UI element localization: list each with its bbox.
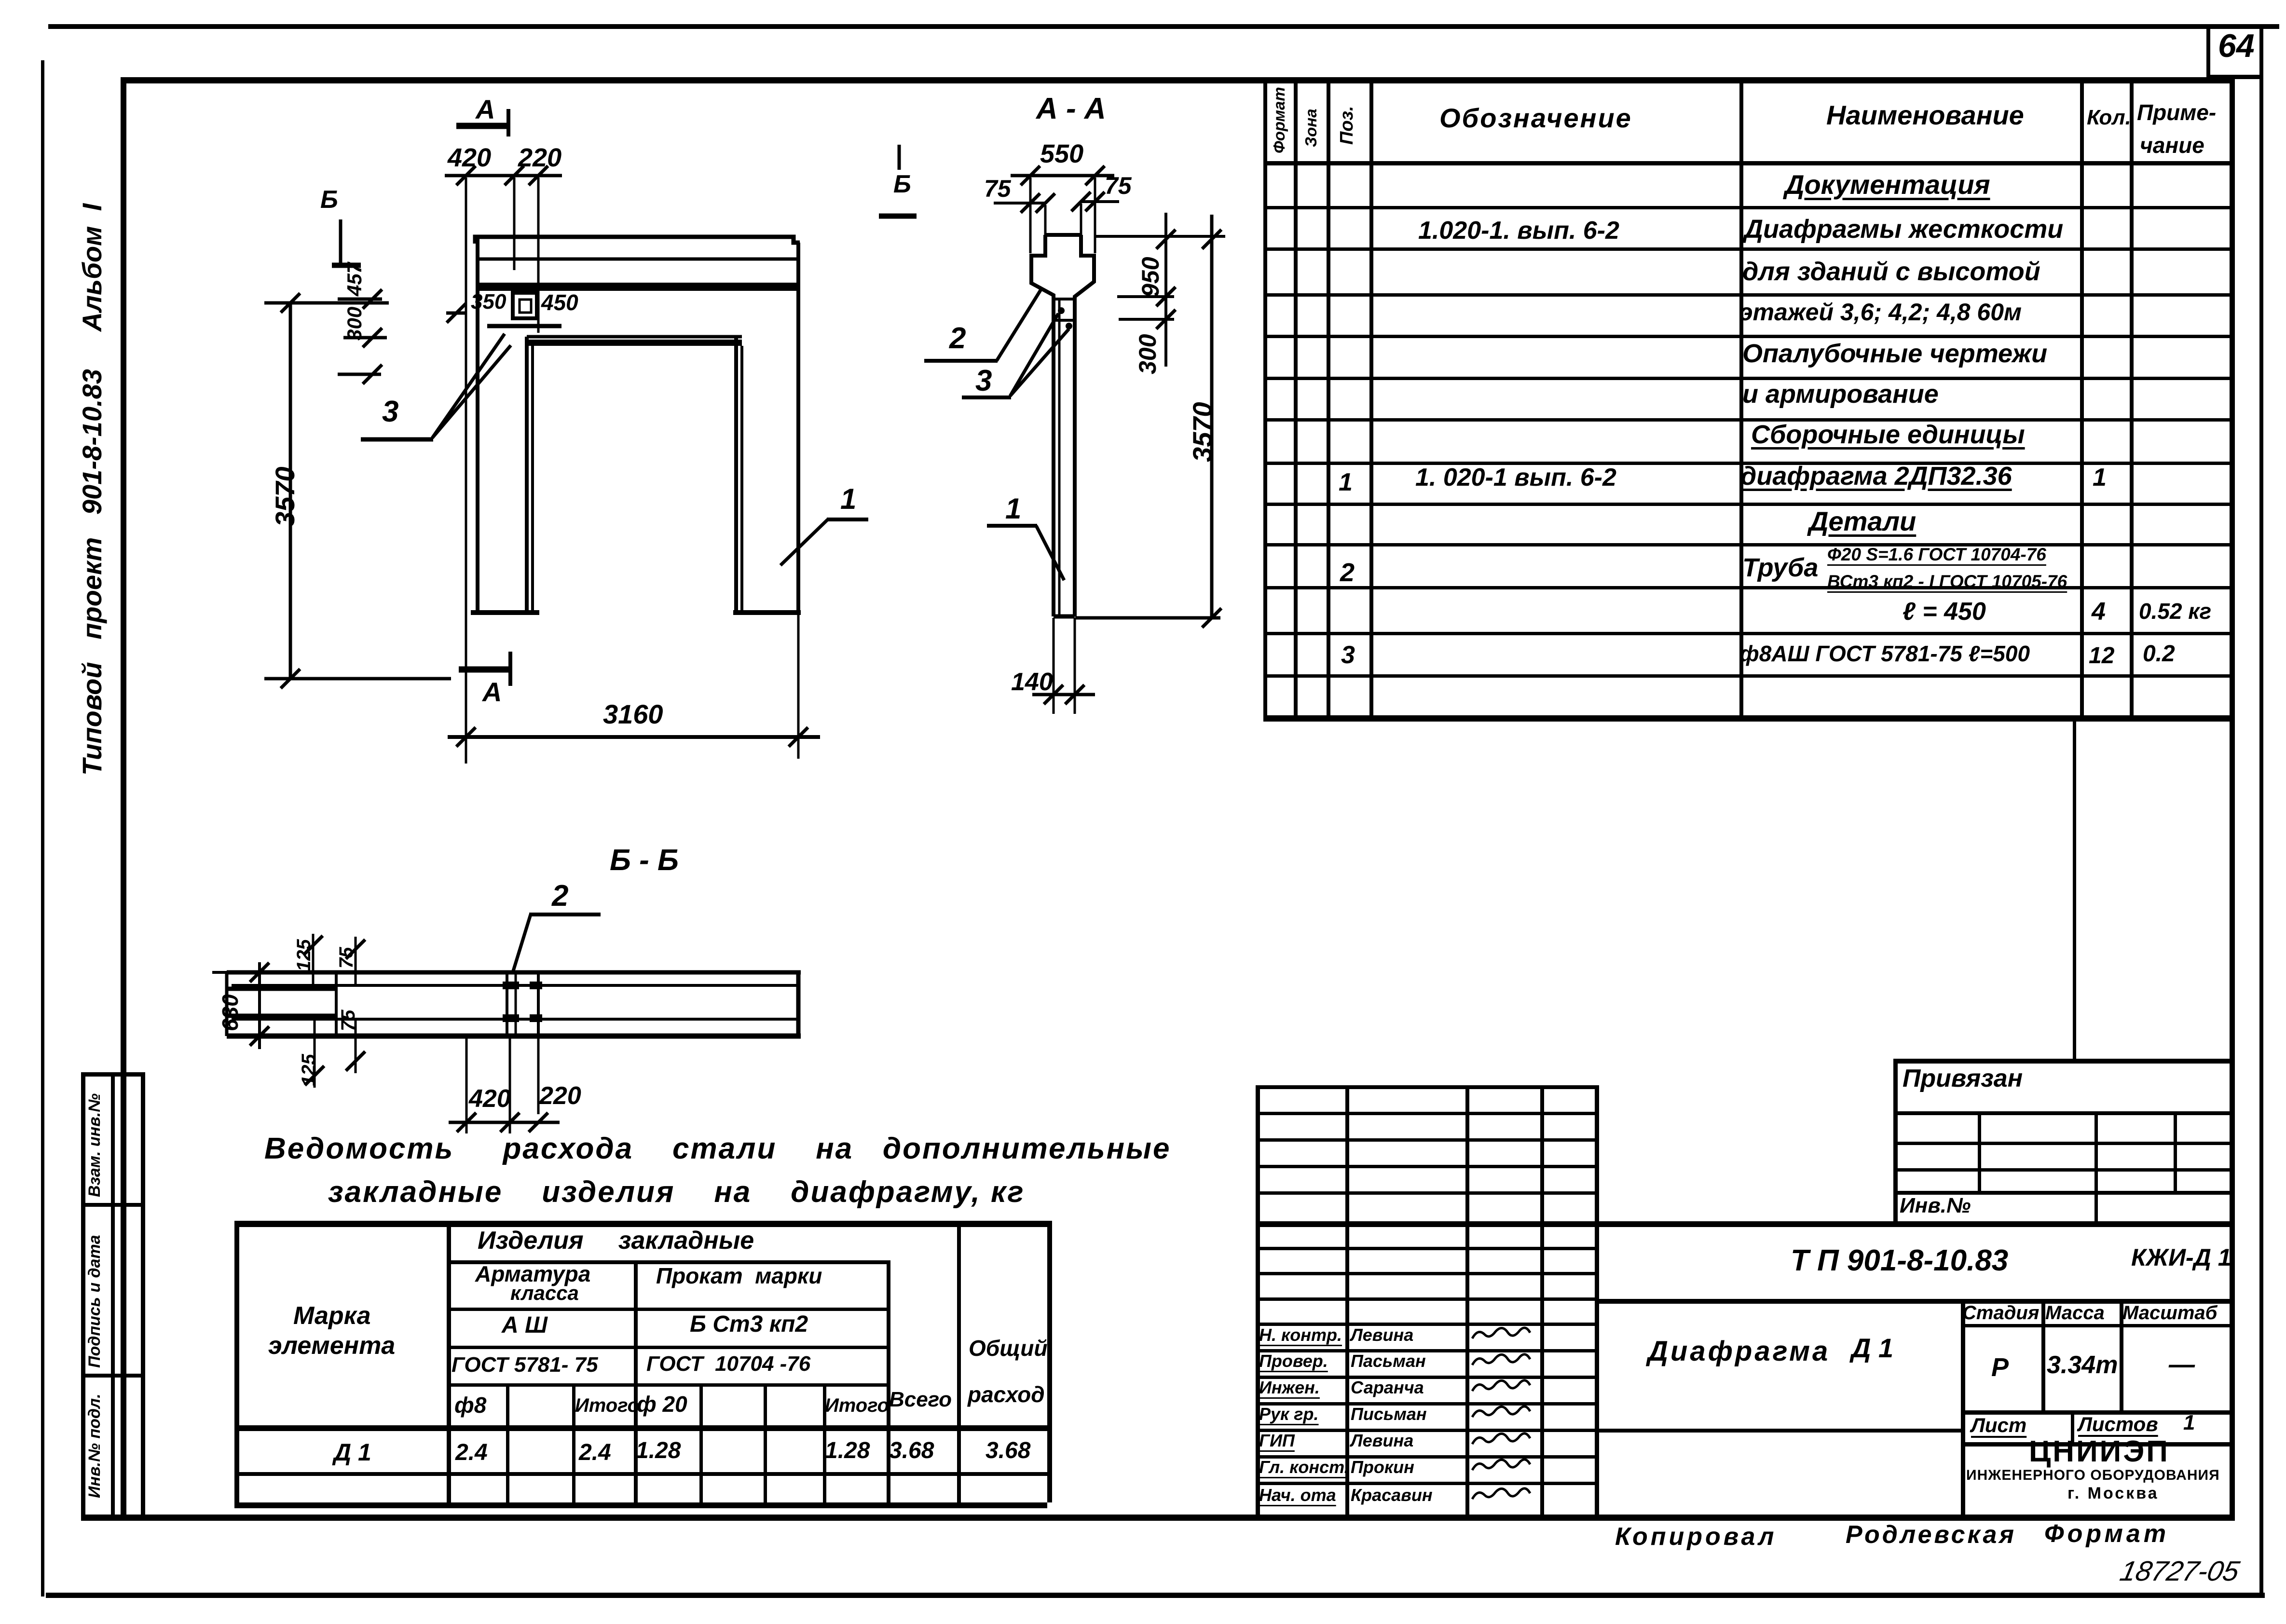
stamp box right edge	[141, 1072, 145, 1516]
front view tick 457 top	[338, 298, 382, 301]
spec table vertical 6	[2130, 77, 2134, 721]
spec row line y957	[1263, 462, 2230, 465]
vedomost top edge	[234, 1221, 1047, 1227]
page number box left edge	[2206, 24, 2210, 78]
org line3 Moscow	[2067, 1485, 2159, 1502]
org line2	[1966, 1467, 2220, 1483]
spec row6 name	[1742, 380, 1939, 409]
spec row8 name	[1740, 462, 2012, 491]
vedomost title line1	[264, 1133, 1171, 1165]
signature upper row line 2	[1256, 1165, 1595, 1168]
spec header naimenovanie	[1826, 100, 2024, 130]
spec row line y781	[1263, 377, 2230, 380]
front view opening top thin line	[527, 335, 742, 339]
section B-B vertical at channel end	[335, 972, 338, 1036]
doc code KZHI-D1	[2131, 1244, 2231, 1271]
signature row line 2	[1256, 1297, 1595, 1301]
privyazan grid vertical 2	[2094, 1111, 2098, 1221]
label 3 front view	[382, 396, 398, 428]
section B-B extension 420/220 mid	[509, 1036, 511, 1133]
spec row line y1310	[1263, 632, 2230, 635]
signature table vertical 2	[1345, 1085, 1349, 1518]
vedomost gost 10704-76	[646, 1352, 810, 1376]
front view left outer edge	[476, 237, 479, 613]
spec row line y608	[1263, 293, 2230, 297]
vedomost line under data row	[234, 1472, 1047, 1476]
spec table vertical 1	[1294, 77, 1298, 721]
privyazan inv no label	[1900, 1194, 1971, 1217]
signature row line 8	[1256, 1455, 1595, 1459]
front view opening top thick band	[527, 340, 742, 346]
left margin vertical label	[77, 204, 107, 776]
signature name Левина	[1351, 1325, 1413, 1345]
section A-A dim line 950/300	[1164, 213, 1167, 367]
section mark B front view	[339, 219, 342, 264]
vedomost data 3.68 obshchiy	[986, 1438, 1030, 1464]
section B-B inner line bottom	[232, 1018, 798, 1021]
label 1 leader (front view)	[827, 518, 868, 521]
spec row3 name	[1742, 258, 2040, 286]
spec row2 oboznachenie	[1418, 217, 1619, 245]
section mark letter B AA	[893, 171, 911, 198]
vedomost right edge	[1047, 1221, 1052, 1502]
privyazan grid vertical 1	[1978, 1111, 1981, 1191]
front view ledge bottom line	[487, 324, 561, 328]
vedomost vertical marka|izdeliya	[447, 1221, 451, 1502]
signature row line 1	[1256, 1272, 1595, 1275]
vedomost value A-III	[502, 1313, 548, 1338]
dim text 3160	[603, 699, 663, 729]
stamp label podpis i data	[86, 1235, 104, 1368]
dim text 450 cap	[541, 290, 578, 315]
spec table vertical 5	[2080, 77, 2084, 721]
label 2 AA	[949, 322, 966, 355]
title diafragma	[1648, 1336, 1830, 1367]
section B-B plate anchor blobs	[503, 982, 519, 989]
section B-B bar outline	[227, 970, 801, 975]
title block top edge	[1256, 1221, 2230, 1227]
spec row10 fraction bottom	[1827, 572, 2067, 592]
signature row ГИП	[1259, 1431, 1295, 1450]
section mark B (A-A view)	[898, 145, 901, 170]
dim text 220 front	[518, 144, 561, 172]
privyazan grid line 1	[1893, 1111, 2230, 1115]
vertical list|listov	[2071, 1410, 2074, 1442]
section A-A tie line 1	[1054, 298, 1075, 300]
vertical line from spec table to privyazan table	[2073, 721, 2076, 1060]
signature table top edge	[1256, 1085, 1595, 1089]
value listov 1	[2183, 1411, 2195, 1434]
dim text 125 top BB rotated	[293, 939, 315, 971]
signature row Провер.	[1259, 1351, 1328, 1371]
spec row11 prim	[2139, 599, 2211, 624]
dim text 420 front	[448, 144, 491, 172]
vedomost vertical itogo1 left	[572, 1383, 575, 1502]
dim text 550 AA	[1040, 140, 1083, 168]
stamp box left edge	[81, 1072, 85, 1516]
section mark A top	[456, 123, 510, 129]
spec row line y513	[1263, 247, 2230, 251]
dim text 75 left AA	[984, 176, 1011, 202]
spec header kol	[2087, 106, 2131, 129]
vedomost line under izdeliya header	[447, 1260, 887, 1264]
dim text 350 cap	[471, 290, 506, 314]
dim text 140 AA	[1011, 669, 1053, 696]
dim text 3570 front rotated	[270, 466, 300, 527]
front view tick 457/300 divider	[343, 336, 387, 340]
inner frame right	[2230, 77, 2235, 1519]
signature row line 7	[1256, 1429, 1595, 1432]
page number box bottom edge	[2206, 75, 2263, 79]
section B-B extension 125 bottom	[314, 1019, 316, 1088]
vedomost vertical obshchiy left	[957, 1221, 961, 1502]
dim text 950 AA rotated	[1137, 257, 1164, 297]
dim text 220 BB	[539, 1082, 581, 1110]
front view right foot bottom line	[733, 610, 801, 615]
section A-A dim line 75 left	[994, 202, 1044, 205]
spec row line y1126	[1263, 543, 2230, 546]
stamp box top edge	[81, 1072, 144, 1077]
spec row8 kol	[2093, 464, 2107, 491]
privyazan label	[1903, 1065, 2023, 1092]
spec row4 name	[1739, 299, 2022, 326]
section A-A dim line 550	[1011, 174, 1114, 177]
spec row line y1042	[1263, 503, 2230, 506]
vedomost value BSt3kp2	[690, 1312, 808, 1337]
front view extension line 3570 top	[264, 301, 389, 305]
section A-A stem bottom	[1054, 614, 1075, 619]
spec header col zona	[1302, 109, 1320, 147]
front view opening right edge	[734, 337, 738, 613]
doc code TP 901-8-10.83	[1791, 1244, 2008, 1277]
signature name Красавин	[1351, 1486, 1433, 1505]
signature row line 6	[1256, 1402, 1595, 1406]
front view opening right inner line	[740, 346, 743, 613]
spec row line y1398	[1263, 674, 2230, 678]
spec table vertical 4	[1739, 77, 1743, 721]
privyazan grid line 4	[1893, 1191, 2230, 1195]
section B-B extension 420 left	[465, 1036, 468, 1133]
title block line under doc code	[1595, 1299, 2230, 1304]
spec row11 l450	[1903, 598, 1986, 626]
stamp label inv podl	[86, 1393, 104, 1498]
spec row10 truba	[1742, 554, 1818, 582]
front view tick line 350 level	[446, 312, 466, 315]
dim text 125 bottom BB rotated	[298, 1054, 319, 1086]
section mark letter B front	[320, 186, 338, 214]
section mark letter A bottom	[482, 677, 502, 707]
front view left extension line	[465, 177, 467, 764]
vedomost header elementa	[268, 1332, 395, 1360]
section A-A extension right	[1094, 177, 1096, 253]
label 2 leader (B-B)	[529, 913, 601, 916]
page outer bottom border	[46, 1593, 2265, 1598]
signature row Инжен.	[1259, 1378, 1320, 1397]
privyazan table top edge	[1893, 1059, 2231, 1064]
vedomost line under armatura/prokat	[447, 1308, 887, 1311]
signature row Нач. ота	[1259, 1486, 1336, 1505]
spec row12 prim	[2143, 641, 2175, 667]
vedomost gost 5781-75	[452, 1353, 598, 1377]
footer rodlevskaya	[1846, 1521, 2016, 1549]
label 2 leader (A-A)	[924, 359, 998, 363]
signature table vertical 4	[1540, 1085, 1544, 1518]
spec row documentation	[1785, 170, 1990, 200]
vedomost header izdeliya zakladnye	[478, 1227, 754, 1255]
section B-B inner line top	[232, 984, 798, 987]
vedomost data 1.28 f20	[636, 1438, 681, 1464]
header massa	[2045, 1302, 2105, 1324]
signature table right edge	[1595, 1085, 1599, 1518]
section B-B dim line 420/220	[449, 1121, 560, 1124]
vedomost vertical vsego left	[887, 1260, 890, 1502]
vedomost header marka	[293, 1302, 371, 1330]
section A-A extension 140 right	[1074, 618, 1076, 714]
spec row8 oboznachenie	[1415, 464, 1616, 491]
signature name Саранча	[1351, 1378, 1424, 1397]
front view dim line 3570	[289, 303, 292, 679]
section A-A anchor dots (item 3)	[1058, 307, 1065, 314]
title D1	[1851, 1333, 1893, 1363]
dim text 457 rotated	[343, 262, 366, 296]
label 3 AA	[975, 365, 992, 397]
vedomost vertical f8 right	[506, 1383, 509, 1502]
section B-B extension 220 right	[537, 1036, 540, 1114]
footer kopiroval	[1615, 1523, 1777, 1551]
signature upper row line 3	[1256, 1191, 1595, 1195]
stamp divider 2	[81, 1374, 144, 1378]
spec table bottom line	[1263, 715, 2230, 722]
vertical massa|masshtab	[2120, 1299, 2123, 1410]
footer format	[2044, 1520, 2169, 1548]
header masshtab	[2122, 1302, 2217, 1324]
spec row10 poz	[1340, 559, 1355, 587]
spec table vertical 3	[1369, 77, 1373, 721]
spec header bottom line	[1263, 161, 2230, 165]
front view right outer edge	[796, 243, 800, 613]
header stadia	[1962, 1302, 2039, 1324]
spec header col poz	[1337, 106, 1357, 145]
spec row7 name	[1751, 421, 2025, 449]
stamp divider 1	[81, 1203, 144, 1207]
dim text 75 top BB rotated	[336, 947, 357, 969]
signature upper row line 1	[1256, 1138, 1595, 1142]
label 1 front view	[840, 483, 856, 515]
signature upper row line 0	[1256, 1112, 1595, 1115]
vedomost left edge	[234, 1221, 239, 1502]
section B-B extension 125 top	[312, 934, 315, 985]
spec row2 name	[1744, 215, 2063, 244]
signature row Рук гр.	[1259, 1405, 1319, 1424]
page outer right border	[2259, 24, 2263, 1598]
privyazan table left edge	[1893, 1059, 1898, 1225]
section B-B dim line 630	[258, 962, 261, 1049]
vedomost data D1	[334, 1439, 371, 1466]
spec row line y867	[1263, 418, 2230, 422]
vedomost bottom edge	[234, 1502, 1047, 1508]
vedomost vertical blank	[764, 1383, 767, 1502]
title line under diafragma cell	[1595, 1429, 1961, 1433]
spec row10 fraction top	[1827, 545, 2046, 565]
page number 64	[2218, 28, 2255, 64]
front view extension line mid	[513, 177, 516, 270]
label 1 AA	[1005, 493, 1021, 525]
title block vertical diafragma/stadia	[1961, 1299, 1965, 1518]
dim text 300 AA rotated	[1135, 334, 1161, 374]
section mark letter A top	[476, 95, 495, 124]
front view dim line 420/220	[445, 174, 562, 177]
spec header chanie	[2140, 133, 2204, 158]
front view opening left edge	[525, 337, 529, 613]
dim text 3570 AA rotated	[1188, 402, 1218, 462]
privyazan grid vertical 3	[2174, 1111, 2177, 1191]
spec table vertical 2	[1327, 77, 1330, 721]
section A-A dim line 140	[1032, 693, 1095, 696]
vedomost vertical itogo2 left	[823, 1383, 826, 1502]
section A-A tie line 2	[1054, 319, 1075, 322]
line under stadia values	[1961, 1410, 2230, 1415]
signature name Письман	[1351, 1405, 1427, 1424]
signature row Гл. конст.	[1259, 1458, 1349, 1477]
privyazan grid line 2	[1893, 1142, 2230, 1145]
dim text 75 right AA	[1105, 173, 1132, 199]
line under stadia header	[1961, 1324, 2230, 1327]
spec row line y694	[1263, 335, 2230, 338]
spec header col format	[1271, 87, 1288, 153]
section B-B left channel line top	[227, 987, 338, 991]
footer number 18727-05	[2117, 1556, 2242, 1587]
section A-A extension 140 left	[1053, 618, 1055, 714]
vedomost data 2.4 itogo	[579, 1440, 611, 1466]
front view opening left inner line	[531, 346, 534, 613]
vedomost header armatura	[475, 1262, 590, 1286]
vedomost line under GOST row	[447, 1383, 887, 1387]
value massa	[2047, 1351, 2118, 1379]
vedomost subheader itogo1	[575, 1395, 639, 1416]
signature row Н. контр.	[1259, 1325, 1342, 1345]
stamp box divider	[111, 1072, 115, 1516]
line under list row	[1961, 1442, 2230, 1447]
vertical stadia|massa	[2041, 1299, 2045, 1410]
vedomost line under A-III row	[447, 1346, 887, 1349]
front view dim line 3160	[448, 735, 820, 739]
inner frame top	[121, 77, 2234, 83]
vedomost data 2.4 f8	[455, 1440, 488, 1466]
dim text 75 bottom BB rotated	[338, 1010, 359, 1032]
spec table vertical 0	[1263, 77, 1267, 721]
signature name Прокин	[1351, 1458, 1414, 1477]
spec row12 name	[1739, 641, 2030, 666]
front view right extension line	[797, 613, 800, 759]
spec row12 poz	[1341, 641, 1355, 669]
section A-A dim line 75 right	[1081, 200, 1119, 203]
dim text 630 BB rotated	[218, 994, 243, 1031]
section B-B extension 75 top	[355, 937, 357, 985]
front view horizontal joint line	[478, 258, 798, 261]
spec row11 kol	[2092, 598, 2106, 626]
dim text 300 front rotated	[343, 307, 366, 341]
vedomost subheader f20	[637, 1392, 687, 1417]
signature row line 5	[1256, 1376, 1595, 1379]
vedomost data 1.28 itogo	[825, 1438, 870, 1464]
section A-A extension left	[1029, 177, 1032, 253]
vedomost vertical f20 right	[699, 1383, 703, 1502]
section B-B plate line 1	[506, 972, 508, 1036]
signature row line 9	[1256, 1482, 1595, 1485]
signature table left edge	[1256, 1085, 1260, 1518]
section B-B plate line 2	[515, 972, 517, 1036]
signature table vertical 3	[1465, 1085, 1469, 1518]
privyazan grid line 3	[1893, 1168, 2230, 1172]
inner frame bottom	[81, 1515, 2235, 1521]
front view embedded plate (item 3)	[513, 293, 537, 318]
value stadia P	[1991, 1353, 2009, 1382]
section A-A title	[1036, 93, 1106, 125]
stamp label vzam inv	[86, 1093, 104, 1197]
page outer top border	[48, 24, 2279, 29]
label 3 leader lines (front view)	[361, 437, 433, 442]
signature row line 4	[1256, 1349, 1595, 1352]
front view: diaphragm outline cap top edge	[475, 237, 800, 244]
front view thick band	[478, 283, 798, 291]
spec header oboznachenie	[1439, 103, 1632, 133]
vedomost header raskhod	[968, 1382, 1045, 1407]
signature name Пасьман	[1351, 1351, 1426, 1371]
section B-B extension 75 bottom	[355, 1019, 357, 1073]
vedomost header prokat marki	[656, 1264, 822, 1288]
section A-A dim line 3570	[1210, 215, 1214, 618]
section B-B title	[610, 844, 679, 877]
value masshtab dash	[2169, 1351, 2195, 1379]
vedomost title line2	[328, 1176, 1025, 1209]
org CNIIEP	[2029, 1435, 2170, 1468]
label 2 BB	[552, 880, 568, 913]
signature row line 3	[1256, 1323, 1595, 1326]
section mark A bottom	[459, 667, 512, 673]
inner frame left	[121, 77, 126, 1519]
label 1 leader (A-A)	[987, 524, 1037, 528]
front view extension line right	[537, 177, 540, 333]
section A-A extension line 950/300	[1117, 295, 1174, 298]
spec row line y427	[1263, 206, 2230, 209]
signature name Левина	[1351, 1431, 1413, 1450]
spec row5 name	[1742, 340, 2047, 368]
vedomost header vsego	[889, 1388, 952, 1411]
vedomost vertical armatura|prokat	[634, 1260, 638, 1502]
front view extension line 3570 bottom	[264, 677, 451, 681]
dim text 420 BB	[469, 1085, 511, 1113]
vedomost subheader f8	[454, 1393, 486, 1418]
section B-B left channel line bottom	[227, 1014, 338, 1018]
signature row line 0	[1256, 1247, 1595, 1250]
label list	[1971, 1414, 2026, 1436]
spec row8 poz	[1339, 469, 1353, 496]
front view tick 300 bottom	[338, 373, 381, 376]
section A-A extension line 300 bottom	[1119, 318, 1174, 321]
vedomost data 3.68 vsego	[889, 1438, 934, 1464]
spec row9 details	[1809, 506, 1916, 536]
label 3 leader (A-A)	[962, 396, 1011, 399]
section B-B plate line 3	[537, 972, 540, 1036]
spec row12 kol	[2089, 643, 2114, 669]
label listov	[2078, 1413, 2158, 1435]
vedomost header obshchiy	[969, 1336, 1047, 1361]
section A-A column head outline	[1045, 233, 1081, 237]
signatures (handwritten squiggles)	[1472, 1328, 1530, 1338]
spec row line y1215	[1263, 586, 2230, 589]
vedomost subheader itogo2	[825, 1395, 889, 1416]
page outer left border	[41, 60, 44, 1597]
